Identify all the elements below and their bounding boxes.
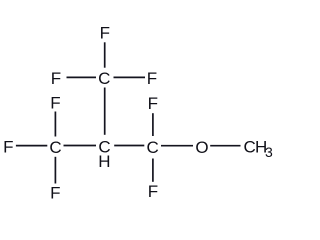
- wire bond F to C(right) vertical upper: [152, 113, 154, 136]
- wire bond F(far-left) to C(left) horizontal: [16, 145, 47, 147]
- svg-text:F: F: [147, 69, 157, 88]
- svg-text:H: H: [98, 152, 110, 171]
- wire bond C(top) to F(top-right) horizontal: [114, 76, 146, 78]
- wire bond F(top-left) to C(top) horizontal: [67, 76, 97, 78]
- svg-text:C: C: [146, 138, 158, 157]
- svg-text:F: F: [50, 93, 60, 112]
- wire bond O to CH3 horizontal: [210, 145, 240, 147]
- wire bond C(top) to C(middle) vertical: [104, 88, 106, 135]
- svg-text:3: 3: [265, 144, 273, 160]
- wire bond C(left) to F(bottom-left) vertical: [54, 157, 56, 184]
- svg-text:F: F: [3, 138, 13, 157]
- wire bond C(right) to O horizontal: [161, 145, 193, 147]
- svg-text:F: F: [148, 182, 158, 201]
- wire bond C(middle) to C(right) horizontal: [114, 145, 144, 147]
- svg-text:C: C: [98, 69, 110, 88]
- wire bond C(left) to C(middle) horizontal: [64, 145, 97, 147]
- wire bond C(right) to F(bottom-right) vertical: [152, 159, 154, 182]
- svg-text:F: F: [50, 184, 60, 203]
- svg-text:C: C: [49, 138, 61, 157]
- wire bond F to C(left) vertical upper: [54, 112, 56, 137]
- svg-text:F: F: [148, 94, 158, 113]
- svg-text:C: C: [244, 138, 256, 157]
- svg-text:F: F: [100, 24, 110, 43]
- wire bond F(top) to C(top) vertical: [104, 42, 106, 67]
- svg-text:O: O: [195, 138, 208, 157]
- svg-text:F: F: [51, 69, 61, 88]
